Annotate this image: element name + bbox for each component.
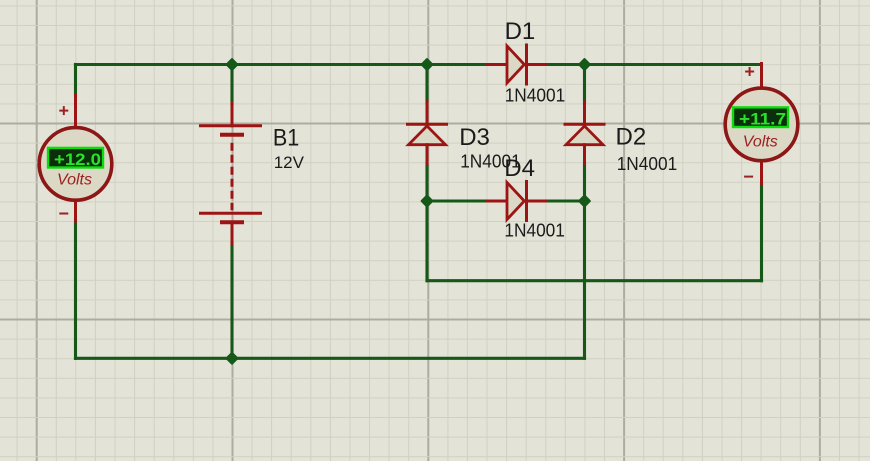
- wire D2 top stub: [583, 65, 586, 104]
- wire D2 bottom stub: [583, 164, 586, 202]
- wire bottom rail: [76, 357, 585, 360]
- wire battery top stub: [230, 65, 233, 105]
- svg-text:D3: D3: [459, 124, 490, 151]
- node battery bottom: [227, 353, 238, 364]
- diode D2: [564, 102, 606, 164]
- wire VM1 top stub: [74, 65, 77, 96]
- wire top rail right segment: [546, 63, 760, 66]
- node D2 top: [579, 59, 590, 70]
- wire VM2 bottom stub: [760, 185, 763, 281]
- svg-text:+12.0: +12.0: [54, 150, 101, 169]
- svg-text:1N4001: 1N4001: [505, 85, 566, 105]
- wire D3 bottom stub: [425, 164, 428, 202]
- svg-text:D4: D4: [504, 155, 535, 182]
- diode D4: [487, 180, 546, 222]
- svg-text:1N4001: 1N4001: [617, 154, 678, 174]
- wire D3 top stub: [425, 65, 428, 104]
- svg-text:D1: D1: [505, 18, 536, 45]
- node battery top: [227, 59, 238, 70]
- wire mid rail: [427, 279, 762, 282]
- svg-text:B1: B1: [273, 124, 299, 151]
- wire VM1 bottom stub: [74, 221, 77, 359]
- battery B1: [199, 103, 262, 244]
- node D4 left: [422, 196, 433, 207]
- wire left down-leg: [425, 201, 428, 281]
- node D3 top: [422, 59, 433, 70]
- node D4 right: [579, 196, 590, 207]
- svg-text:Volts: Volts: [57, 171, 92, 188]
- wire D4 left stub: [427, 199, 488, 202]
- svg-text:D2: D2: [616, 123, 647, 150]
- wire right down-leg: [583, 201, 586, 358]
- svg-text:12V: 12V: [274, 153, 305, 172]
- svg-text:+11.7: +11.7: [739, 109, 786, 128]
- wire battery bottom stub: [230, 244, 233, 359]
- svg-text:1N4001: 1N4001: [504, 221, 565, 241]
- wire D4 right stub: [546, 199, 585, 202]
- voltmeter VM1 (+12.0 Volts): [39, 95, 112, 221]
- wire top rail left segment: [76, 63, 489, 66]
- svg-text:Volts: Volts: [743, 134, 778, 151]
- voltmeter VM2 (+11.7 Volts): [725, 64, 798, 185]
- diode D1: [487, 44, 546, 86]
- diode D3: [406, 102, 448, 164]
